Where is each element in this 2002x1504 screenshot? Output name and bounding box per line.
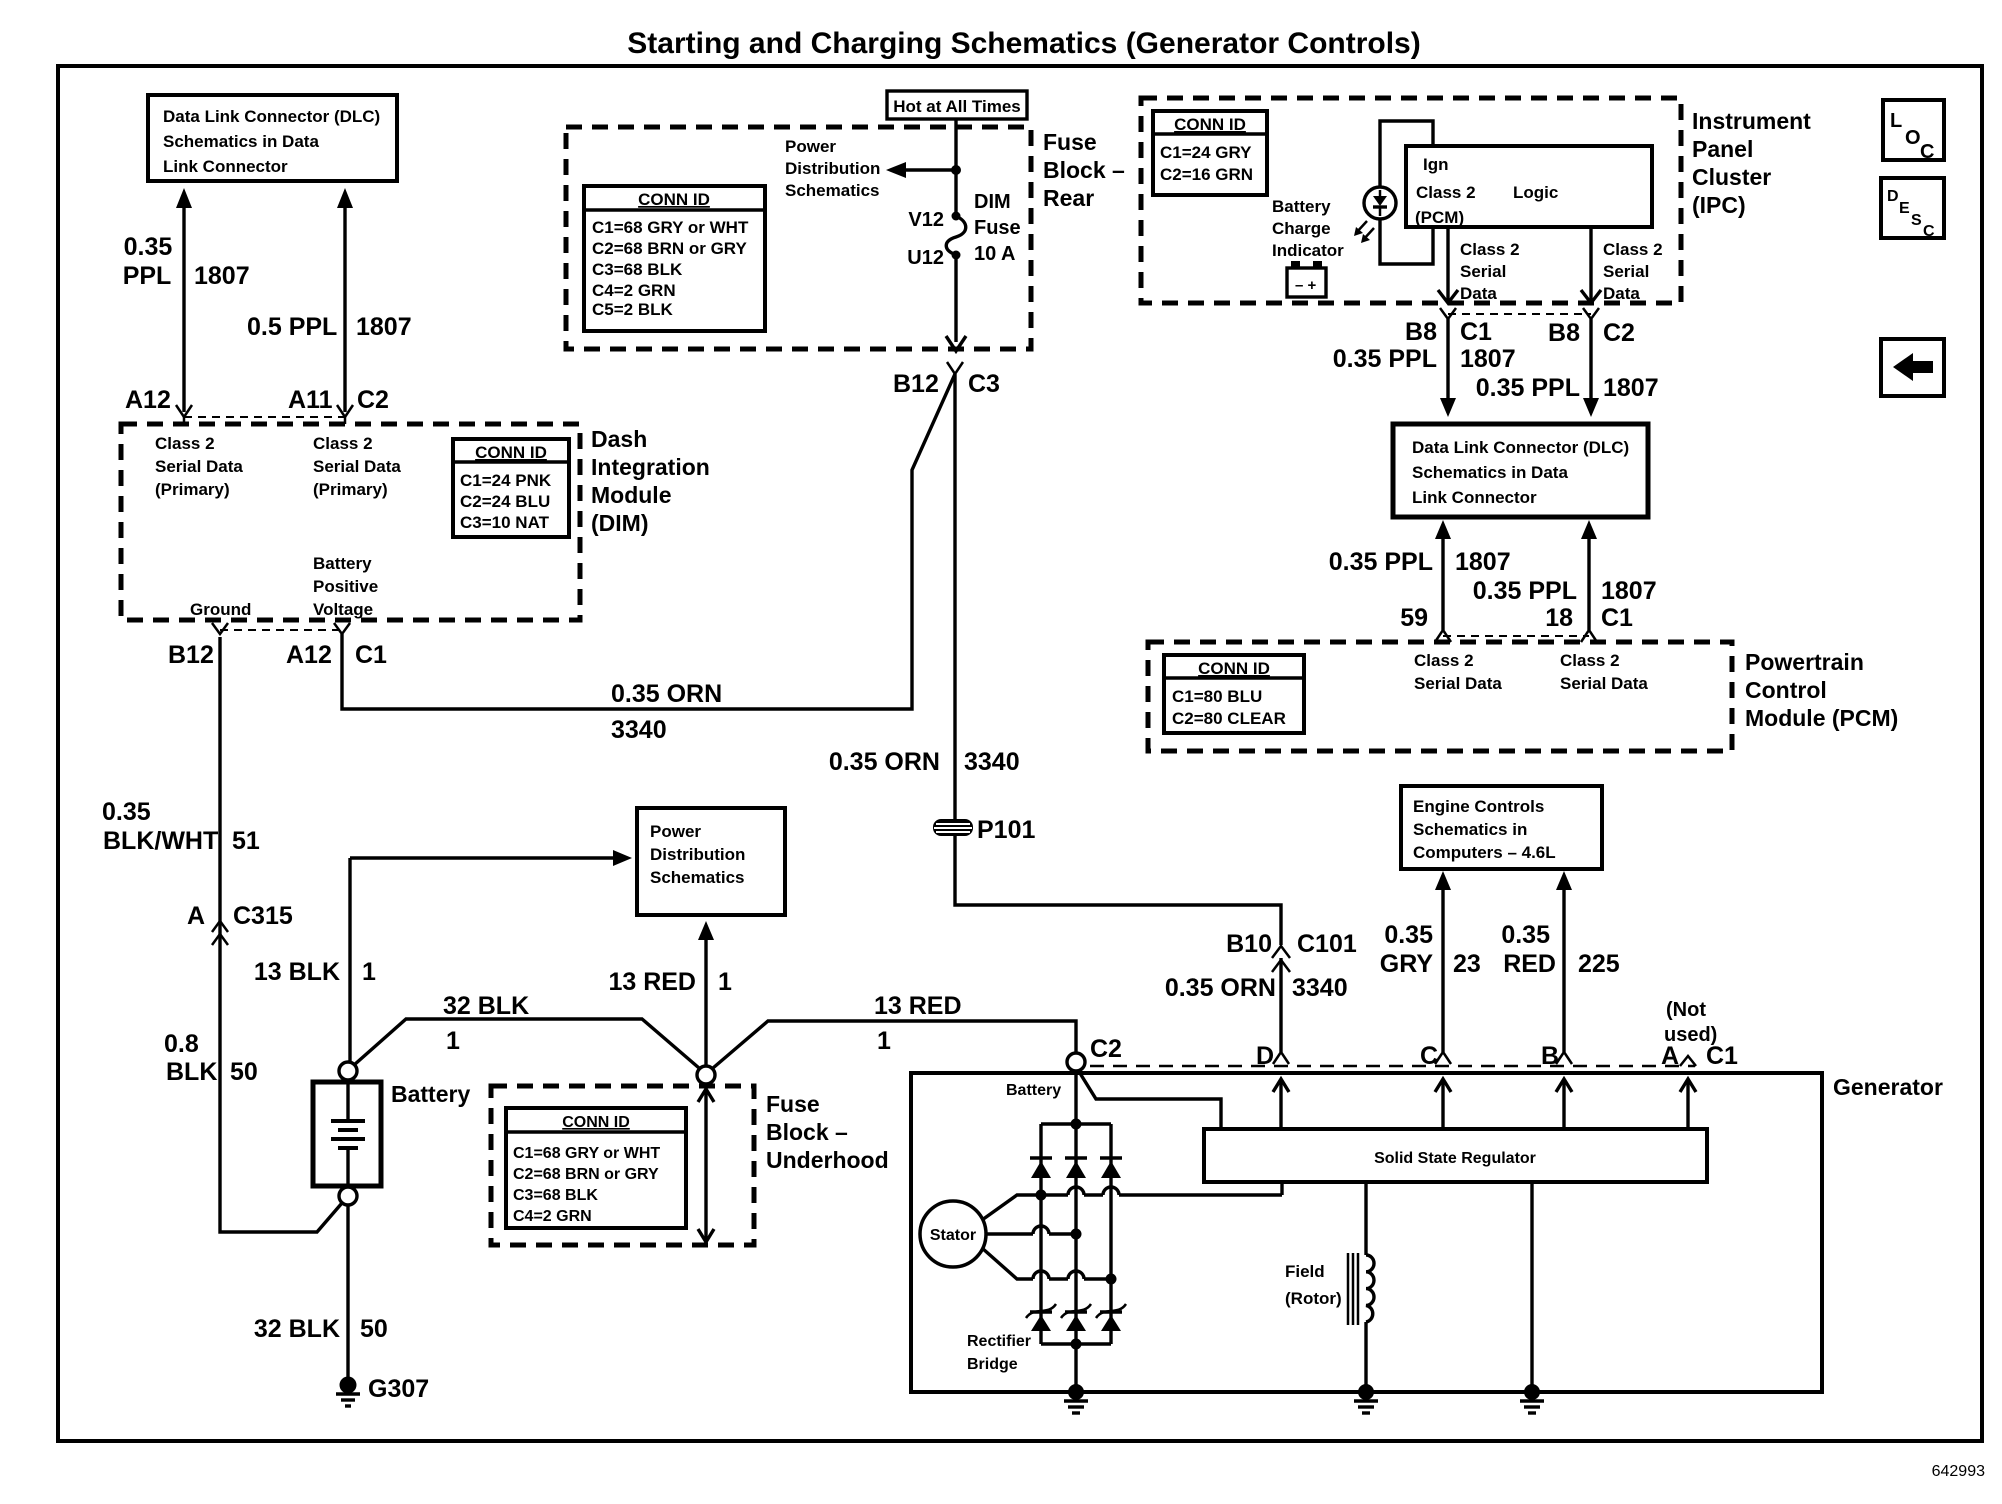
stator xyxy=(920,1201,986,1267)
svg-text:0.35 PPL: 0.35 PPL xyxy=(1333,345,1437,373)
svg-text:0.35: 0.35 xyxy=(124,233,173,261)
svg-text:A12: A12 xyxy=(125,386,171,414)
svg-text:C: C xyxy=(1923,223,1935,240)
svg-text:0.35 PPL: 0.35 PPL xyxy=(1476,374,1580,402)
svg-text:3340: 3340 xyxy=(611,716,667,744)
diode D1 (upper, branch 1) xyxy=(1030,1158,1052,1178)
junction (bottom rail) xyxy=(1071,1339,1082,1350)
label: Instrument Panel Cluster (IPC) xyxy=(1692,108,1811,218)
connector pin A12 (DIM C2) xyxy=(176,405,192,424)
svg-text:0.8: 0.8 xyxy=(164,1030,199,1058)
svg-text:Class 2: Class 2 xyxy=(1460,240,1520,259)
svg-text:Class 2: Class 2 xyxy=(155,434,215,453)
svg-text:Class 2: Class 2 xyxy=(1603,240,1663,259)
svg-text:Rear: Rear xyxy=(1043,185,1094,211)
wire: 13 RED 1 splice to generator C2 xyxy=(713,1021,1076,1068)
svg-text:C2=80 CLEAR: C2=80 CLEAR xyxy=(1172,709,1286,728)
indicator lamp (LED) xyxy=(1354,187,1396,243)
svg-text:0.35: 0.35 xyxy=(1384,921,1433,949)
svg-text:0.35 PPL: 0.35 PPL xyxy=(1329,548,1433,576)
grommet P101 xyxy=(933,819,973,836)
svg-text:CONN ID: CONN ID xyxy=(475,443,547,462)
svg-text:Schematics in Data: Schematics in Data xyxy=(1412,463,1568,482)
svg-text:Class 2: Class 2 xyxy=(313,434,373,453)
ground (field) xyxy=(1354,1384,1378,1413)
svg-text:Fuse: Fuse xyxy=(766,1091,820,1117)
wire: 0.35 ORN 3340 down through P101 to C101 xyxy=(955,374,1281,945)
connector face line (DIM bottom) xyxy=(220,629,342,631)
wire: 0.35 PPL 1807 from IPC C1 down to DLC xyxy=(1440,319,1456,417)
wire: 32 BLK 1 battery positive to splice xyxy=(354,1019,699,1068)
svg-text:Serial Data: Serial Data xyxy=(313,457,401,476)
svg-text:Computers – 4.6L: Computers – 4.6L xyxy=(1413,843,1556,862)
wire: stator phase A to branch 1 and regulator xyxy=(982,1182,1282,1220)
connector A / C315 (inline) xyxy=(212,921,228,945)
svg-text:23: 23 xyxy=(1453,950,1481,978)
svg-text:Voltage: Voltage xyxy=(313,600,373,619)
svg-text:Block –: Block – xyxy=(1043,157,1125,183)
svg-text:Logic: Logic xyxy=(1513,183,1558,202)
diode D4 (lower, branch 1) xyxy=(1026,1304,1056,1331)
svg-text:13 RED: 13 RED xyxy=(608,968,696,996)
svg-text:Link Connector: Link Connector xyxy=(163,157,288,176)
svg-text:Distribution: Distribution xyxy=(650,845,745,864)
text: Class 2 Serial Data xyxy=(1460,240,1520,303)
svg-text:C1=80 BLU: C1=80 BLU xyxy=(1172,687,1262,706)
diode D3 (upper, branch 3) xyxy=(1100,1158,1122,1178)
DIM pin function text: Battery Positive Voltage xyxy=(313,554,378,619)
splice junction (battery feed) xyxy=(697,1066,715,1084)
svg-text:Starting and Charging Schemati: Starting and Charging Schematics (Genera… xyxy=(627,27,1420,60)
svg-text:Data: Data xyxy=(1603,284,1640,303)
rectifier top rail xyxy=(1041,1122,1111,1125)
svg-text:13 BLK: 13 BLK xyxy=(254,958,340,986)
svg-text:(DIM): (DIM) xyxy=(591,510,648,536)
svg-text:1: 1 xyxy=(446,1027,460,1055)
text: Battery Charge Indicator xyxy=(1272,197,1344,260)
connector pin B xyxy=(1556,1052,1572,1064)
wire: 13 BLK 1 battery positive to power distribution xyxy=(350,850,632,1062)
svg-text:Panel: Panel xyxy=(1692,136,1753,162)
svg-text:C1: C1 xyxy=(355,641,387,669)
svg-text:C315: C315 xyxy=(233,902,293,930)
svg-text:Ign: Ign xyxy=(1423,155,1449,174)
connector face line (PCM top) xyxy=(1443,635,1589,637)
svg-text:Stator: Stator xyxy=(930,1227,976,1244)
wire: fuse output down to fuse block edge xyxy=(946,255,966,351)
svg-text:50: 50 xyxy=(230,1058,258,1086)
module box: Fuse Block - Underhood, dashed xyxy=(491,1086,754,1245)
svg-text:C2=16 GRN: C2=16 GRN xyxy=(1160,165,1253,184)
wire: pin C into regulator xyxy=(1435,1079,1451,1129)
svg-text:1807: 1807 xyxy=(1460,345,1516,373)
text: Class 2 Serial Data (PCM 59) xyxy=(1414,651,1502,693)
svg-text:G307: G307 xyxy=(368,1375,429,1403)
svg-text:Schematics: Schematics xyxy=(785,181,880,200)
svg-text:13 RED: 13 RED xyxy=(874,992,962,1020)
label: Fuse Block - Underhood xyxy=(766,1091,889,1173)
svg-text:C: C xyxy=(1420,1042,1438,1070)
rectifier branch 3 xyxy=(1109,1124,1112,1344)
svg-text:Serial: Serial xyxy=(1460,262,1506,281)
svg-text:A: A xyxy=(1661,1042,1679,1070)
svg-text:Engine Controls: Engine Controls xyxy=(1413,797,1544,816)
wire: class 2 serial data from logic to IPC pin B8/C1 xyxy=(1446,227,1449,303)
svg-text:C2=24 BLU: C2=24 BLU xyxy=(460,492,550,511)
svg-text:Fuse: Fuse xyxy=(1043,129,1097,155)
module box: Generator xyxy=(911,1073,1822,1392)
svg-text:Serial Data: Serial Data xyxy=(1414,674,1502,693)
wire: pin D into regulator xyxy=(1273,1079,1289,1129)
button: DESC xyxy=(1881,178,1944,240)
svg-text:Block –: Block – xyxy=(766,1119,848,1145)
svg-text:GRY: GRY xyxy=(1380,950,1434,978)
svg-text:B10: B10 xyxy=(1226,930,1272,958)
rectifier bottom rail xyxy=(1041,1342,1111,1345)
svg-text:3340: 3340 xyxy=(1292,974,1348,1002)
label: Dash Integration Module (DIM) xyxy=(591,426,710,536)
svg-text:A12: A12 xyxy=(286,641,332,669)
svg-text:CONN ID: CONN ID xyxy=(562,1114,630,1131)
svg-text:Data: Data xyxy=(1460,284,1497,303)
svg-text:Schematics in: Schematics in xyxy=(1413,820,1527,839)
svg-text:Integration: Integration xyxy=(591,454,710,480)
ground (rectifier) xyxy=(1064,1384,1088,1413)
connector pin A (not used) xyxy=(1680,1056,1696,1066)
svg-text:C3: C3 xyxy=(968,370,1000,398)
wire: feed to power distribution schematics (left arrow) xyxy=(886,162,961,178)
svg-text:Data Link Connector (DLC): Data Link Connector (DLC) xyxy=(163,107,380,126)
svg-text:Module: Module xyxy=(591,482,672,508)
svg-text:Data Link Connector (DLC): Data Link Connector (DLC) xyxy=(1412,438,1629,457)
svg-text:59: 59 xyxy=(1400,604,1428,632)
svg-text:C5=2 BLK: C5=2 BLK xyxy=(592,300,673,319)
svg-text:Link Connector: Link Connector xyxy=(1412,488,1537,507)
wire: 0.35 RED 225 from generator B up to engine controls xyxy=(1556,871,1572,1052)
svg-text:Charge: Charge xyxy=(1272,219,1331,238)
svg-text:C3=68 BLK: C3=68 BLK xyxy=(592,260,683,279)
svg-text:1: 1 xyxy=(877,1027,891,1055)
svg-text:(IPC): (IPC) xyxy=(1692,192,1746,218)
terminal C2 (generator battery stud) xyxy=(1067,1053,1085,1071)
svg-text:B12: B12 xyxy=(168,641,214,669)
svg-text:DIM: DIM xyxy=(974,191,1011,213)
svg-text:0.5 PPL: 0.5 PPL xyxy=(247,313,337,341)
wire: feed through fuse block underhood xyxy=(698,1089,714,1243)
wire: 0.35 PPL 1807 from DIM A12 up to DLC box xyxy=(176,188,192,412)
svg-text:1: 1 xyxy=(718,968,732,996)
text: Power Distribution Schematics (inside fuse block) xyxy=(785,137,880,200)
CONN ID table (Fuse Block Underhood) xyxy=(506,1108,686,1228)
label: Fuse Block - Rear xyxy=(1043,129,1125,211)
svg-text:CONN ID: CONN ID xyxy=(638,190,710,209)
svg-text:C2=68 BRN or GRY: C2=68 BRN or GRY xyxy=(592,239,747,258)
svg-text:1807: 1807 xyxy=(1601,577,1657,605)
svg-text:P101: P101 xyxy=(977,816,1035,844)
svg-text:U12: U12 xyxy=(907,247,944,269)
connector pin B12 (DIM ground pin) xyxy=(212,623,228,634)
svg-text:Battery: Battery xyxy=(391,1081,470,1107)
text: Class 2 Serial Data xyxy=(1603,240,1663,303)
box: Data Link Connector (DLC) schematics reference (middle) xyxy=(1393,424,1648,517)
wire: class 2 serial data from logic to IPC pin B8/C2 xyxy=(1589,227,1592,303)
svg-text:Module (PCM): Module (PCM) xyxy=(1745,705,1898,731)
svg-text:0.35 ORN: 0.35 ORN xyxy=(1165,974,1276,1002)
svg-text:C2: C2 xyxy=(357,386,389,414)
svg-text:1807: 1807 xyxy=(356,313,412,341)
box: Hot at All Times xyxy=(887,91,1027,119)
wire: 13 RED 1 splice up to power distribution xyxy=(698,921,714,1066)
wire: lamp anode loop to logic box xyxy=(1380,121,1433,187)
connector face line (IPC bottom) xyxy=(1448,313,1591,315)
svg-text:CONN ID: CONN ID xyxy=(1198,659,1270,678)
svg-text:Class 2: Class 2 xyxy=(1414,651,1474,670)
svg-text:B12: B12 xyxy=(893,370,939,398)
button: back arrow xyxy=(1881,339,1944,396)
connector B10 / C101 (inline) xyxy=(1272,946,1290,972)
svg-text:Indicator: Indicator xyxy=(1272,241,1344,260)
label: Field (Rotor) xyxy=(1285,1262,1342,1308)
regulator: Solid State Regulator xyxy=(1204,1129,1707,1182)
svg-text:1807: 1807 xyxy=(194,262,250,290)
svg-text:C101: C101 xyxy=(1297,930,1357,958)
svg-text:C3=10 NAT: C3=10 NAT xyxy=(460,513,550,532)
svg-text:D: D xyxy=(1887,188,1899,205)
svg-text:A11: A11 xyxy=(288,386,333,414)
svg-text:BLK: BLK xyxy=(166,1058,217,1086)
svg-text:C1=24 PNK: C1=24 PNK xyxy=(460,471,552,490)
svg-text:(PCM): (PCM) xyxy=(1415,208,1464,227)
svg-text:Rectifier: Rectifier xyxy=(967,1333,1031,1350)
label: DIM Fuse 10 A xyxy=(974,191,1021,265)
svg-text:C2: C2 xyxy=(1603,319,1635,347)
connector pin 59 (PCM) xyxy=(1435,630,1451,642)
rectifier branch 1 xyxy=(1039,1124,1042,1344)
svg-text:Schematics: Schematics xyxy=(650,868,745,887)
connector pin D xyxy=(1273,1052,1289,1064)
svg-text:Power: Power xyxy=(650,822,701,841)
svg-text:B8: B8 xyxy=(1548,319,1580,347)
svg-text:Class 2: Class 2 xyxy=(1560,651,1620,670)
label: Powertrain Control Module (PCM) xyxy=(1745,649,1898,731)
wire: pin A into regulator xyxy=(1680,1079,1696,1129)
svg-text:0.35 ORN: 0.35 ORN xyxy=(829,748,940,776)
svg-text:C: C xyxy=(1920,141,1934,163)
svg-text:A: A xyxy=(187,902,205,930)
box: Engine Controls Schematics in Computers - 4.6L xyxy=(1401,786,1602,869)
wire: 0.35 ORN 3340 from DIM C1 to splice with fuse output xyxy=(342,374,955,709)
wire: pin B into regulator xyxy=(1556,1079,1572,1129)
svg-text:Positive: Positive xyxy=(313,577,378,596)
module box: Dash Integration Module (DIM), dashed xyxy=(121,424,580,620)
svg-text:E: E xyxy=(1899,200,1910,217)
svg-text:225: 225 xyxy=(1578,950,1620,978)
module box: Powertrain Control Module (PCM), dashed xyxy=(1148,642,1732,751)
wire: lamp cathode loop to logic box xyxy=(1380,219,1433,264)
wire: 0.35 ORN 3340 from C101 to generator pin D xyxy=(1279,958,1282,1052)
connector pin A12 / C1 (DIM battery pin) xyxy=(334,623,350,634)
svg-text:Generator: Generator xyxy=(1833,1074,1943,1100)
svg-text:B8: B8 xyxy=(1405,318,1437,346)
svg-text:S: S xyxy=(1911,212,1922,229)
diode D5 (lower, branch 2) xyxy=(1061,1304,1091,1331)
svg-text:RED: RED xyxy=(1503,950,1556,978)
svg-text:(Primary): (Primary) xyxy=(155,480,230,499)
box: Power Distribution Schematics xyxy=(637,808,785,915)
wire: stator phase C to branch 3 xyxy=(982,1248,1117,1285)
wire: regulator to field coil xyxy=(1364,1182,1367,1255)
svg-text:CONN ID: CONN ID xyxy=(1174,115,1246,134)
svg-text:C1: C1 xyxy=(1460,318,1492,346)
CONN ID table (IPC) xyxy=(1153,111,1267,195)
fuse: DIM Fuse 10 A (V12-U12) xyxy=(946,212,966,260)
svg-text:Serial Data: Serial Data xyxy=(155,457,243,476)
CONN ID table (Fuse Block Rear) xyxy=(584,186,765,331)
diode D2 (upper, branch 2) xyxy=(1065,1158,1087,1178)
connector pin C xyxy=(1435,1052,1451,1064)
svg-text:3340: 3340 xyxy=(964,748,1020,776)
wire: 0.35 PPL 1807 from IPC C2 down to DLC xyxy=(1583,319,1599,417)
svg-text:Bridge: Bridge xyxy=(967,1356,1018,1373)
svg-text:C1: C1 xyxy=(1601,604,1633,632)
svg-text:Battery: Battery xyxy=(1272,197,1331,216)
svg-text:Battery: Battery xyxy=(1006,1082,1061,1099)
wire: regulator to ground xyxy=(1530,1182,1533,1392)
wire: stator phase B to branch 2 xyxy=(986,1226,1082,1240)
battery icon (IPC telltale) xyxy=(1287,261,1326,297)
CONN ID table (DIM) xyxy=(453,439,569,537)
connector face line (generator C1, dashed) xyxy=(1090,1065,1695,1068)
svg-text:L: L xyxy=(1890,110,1902,132)
svg-text:PPL: PPL xyxy=(123,262,172,290)
svg-text:Field: Field xyxy=(1285,1262,1325,1281)
button: LOC xyxy=(1883,100,1944,163)
svg-text:Power: Power xyxy=(785,137,836,156)
svg-text:D: D xyxy=(1256,1042,1274,1070)
module box: Instrument Panel Cluster (IPC), dashed xyxy=(1141,98,1681,303)
svg-text:32 BLK: 32 BLK xyxy=(443,992,529,1020)
wire: 0.5 PPL 1807 from DIM A11/C2 up to DLC box xyxy=(337,188,353,412)
wire: C2 stud down to rectifier and ground xyxy=(1074,1071,1077,1392)
svg-text:51: 51 xyxy=(232,827,260,855)
ground G307 xyxy=(336,1377,360,1407)
svg-text:Serial: Serial xyxy=(1603,262,1649,281)
wire: hot feed down from Hot at All Times xyxy=(954,119,957,216)
connector pin 18 / C1 (PCM) xyxy=(1581,630,1597,642)
svg-text:Battery: Battery xyxy=(313,554,372,573)
field rotor coil xyxy=(1348,1253,1374,1325)
svg-text:Powertrain: Powertrain xyxy=(1745,649,1864,675)
wire: C2 stud to regulator xyxy=(1078,1070,1221,1129)
svg-text:0.35: 0.35 xyxy=(1501,921,1550,949)
svg-text:1807: 1807 xyxy=(1603,374,1659,402)
svg-text:Distribution: Distribution xyxy=(785,159,880,178)
svg-text:C4=2 GRN: C4=2 GRN xyxy=(513,1208,592,1225)
svg-text:C1: C1 xyxy=(1706,1042,1738,1070)
battery xyxy=(313,1062,381,1205)
label (Not used) xyxy=(1664,999,1717,1046)
svg-text:C1=68 GRY or WHT: C1=68 GRY or WHT xyxy=(513,1145,660,1162)
svg-text:Underhood: Underhood xyxy=(766,1147,889,1173)
svg-text:0.35: 0.35 xyxy=(102,798,151,826)
wire: 0.35 GRY 23 from generator C up to engine controls xyxy=(1435,871,1451,1052)
svg-text:Schematics in Data: Schematics in Data xyxy=(163,132,319,151)
connector pin B8 / C2 (IPC) xyxy=(1583,308,1599,319)
DIM pin function text: Class 2 Serial Data (Primary) left xyxy=(155,434,243,499)
svg-text:Cluster: Cluster xyxy=(1692,164,1771,190)
wire: 32 BLK 50 battery negative to G307 xyxy=(346,1205,349,1379)
wire: 0.35 PPL 1807 from PCM 59 up to DLC xyxy=(1435,520,1451,630)
svg-text:BLK/WHT: BLK/WHT xyxy=(103,827,218,855)
svg-text:(Rotor): (Rotor) xyxy=(1285,1289,1342,1308)
svg-text:18: 18 xyxy=(1545,604,1573,632)
svg-text:– +: – + xyxy=(1295,277,1317,294)
svg-text:C4=2 GRN: C4=2 GRN xyxy=(592,281,676,300)
svg-text:642993: 642993 xyxy=(1932,1463,1985,1480)
svg-text:Solid State Regulator: Solid State Regulator xyxy=(1374,1150,1536,1167)
ground (regulator) xyxy=(1520,1384,1544,1413)
text: Rectifier Bridge xyxy=(967,1333,1031,1373)
wire: field coil to ground xyxy=(1364,1322,1367,1392)
svg-text:C2: C2 xyxy=(1090,1035,1122,1063)
svg-text:Fuse: Fuse xyxy=(974,217,1021,239)
CONN ID table (PCM) xyxy=(1164,655,1304,733)
svg-text:50: 50 xyxy=(360,1315,388,1343)
diode D6 (lower, branch 3) xyxy=(1096,1304,1126,1331)
connector pin B12 / C3 (fuse block output) xyxy=(947,362,963,374)
svg-text:Dash: Dash xyxy=(591,426,647,452)
svg-text:1807: 1807 xyxy=(1455,548,1511,576)
svg-text:O: O xyxy=(1905,127,1921,149)
svg-text:B: B xyxy=(1541,1042,1559,1070)
connector pin A11 / C2 (DIM) xyxy=(337,405,353,424)
svg-text:10 A: 10 A xyxy=(974,243,1016,265)
svg-text:C3=68 BLK: C3=68 BLK xyxy=(513,1187,598,1204)
svg-text:C1=68 GRY or WHT: C1=68 GRY or WHT xyxy=(592,218,749,237)
text: Class 2 Serial Data (PCM 18) xyxy=(1560,651,1648,693)
svg-text:Hot at All Times: Hot at All Times xyxy=(893,97,1021,116)
svg-text:Control: Control xyxy=(1745,677,1827,703)
svg-text:0.35 ORN: 0.35 ORN xyxy=(611,680,722,708)
svg-text:(Not: (Not xyxy=(1666,999,1706,1021)
svg-text:V12: V12 xyxy=(908,209,944,231)
wire: 0.35 BLK/WHT 51 / 0.8 BLK 50 DIM ground to battery negative xyxy=(220,637,342,1232)
svg-text:(Primary): (Primary) xyxy=(313,480,388,499)
svg-text:Ground: Ground xyxy=(190,600,251,619)
svg-text:C2=68 BRN or GRY: C2=68 BRN or GRY xyxy=(513,1166,659,1183)
svg-text:Instrument: Instrument xyxy=(1692,108,1811,134)
connector face line (DIM top) xyxy=(184,416,345,418)
svg-text:1: 1 xyxy=(362,958,376,986)
DIM pin function text: Class 2 Serial Data (Primary) right xyxy=(313,434,401,499)
connector pin B8 / C1 (IPC) xyxy=(1440,308,1456,319)
wire: 0.35 PPL 1807 from PCM 18/C1 up to DLC xyxy=(1581,520,1597,630)
svg-text:C1=24 GRY: C1=24 GRY xyxy=(1160,143,1252,162)
svg-text:32 BLK: 32 BLK xyxy=(254,1315,340,1343)
svg-text:0.35 PPL: 0.35 PPL xyxy=(1473,577,1577,605)
module box: Fuse Block - Rear, dashed xyxy=(566,127,1031,349)
box: Data Link Connector (DLC) schematics reference (top-left) xyxy=(148,95,397,181)
svg-text:Serial Data: Serial Data xyxy=(1560,674,1648,693)
box: IPC logic block xyxy=(1406,146,1652,227)
svg-text:Class 2: Class 2 xyxy=(1416,183,1476,202)
junction (top rail / battery) xyxy=(1071,1119,1082,1130)
